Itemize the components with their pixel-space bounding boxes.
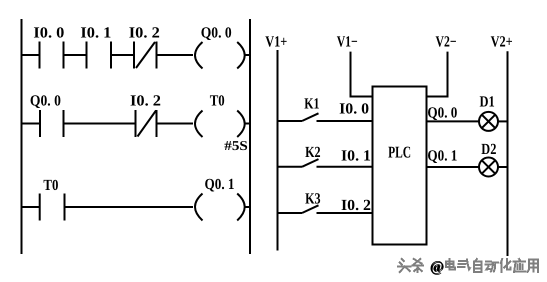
svg-text:I0. 2: I0. 2 bbox=[341, 197, 371, 214]
wire PLC Q0.0 to lamp D1 bbox=[427, 120, 480, 122]
NC contact I0.2 rung1 bbox=[134, 42, 157, 69]
wire lamp D2 to V2+ bbox=[498, 166, 508, 168]
svg-text:Q0. 0: Q0. 0 bbox=[427, 105, 457, 122]
PLC box U1 bbox=[373, 87, 427, 245]
contact Q0.0 bbox=[40, 110, 64, 137]
wire K1 to PLC I0.0 bbox=[317, 120, 373, 122]
V1+ supply line bbox=[277, 50, 279, 251]
watermark char 化 bbox=[501, 259, 511, 272]
svg-text:D2: D2 bbox=[481, 141, 496, 158]
contact T0 bbox=[40, 194, 65, 221]
svg-text:T0: T0 bbox=[43, 177, 58, 194]
wire V1+ to switch K2 bbox=[278, 166, 303, 168]
svg-text:I0. 1: I0. 1 bbox=[341, 148, 371, 165]
watermark 头条@电气自动化应用 bbox=[398, 259, 539, 276]
wire Q0.0 to I0.2 rung2 bbox=[64, 123, 136, 125]
lamp D2 bbox=[479, 158, 498, 177]
V2- supply line bbox=[427, 52, 448, 97]
V1- supply line bbox=[351, 52, 373, 97]
wire T0 to coil Q0.1 bbox=[65, 206, 194, 208]
watermark char 应 bbox=[514, 259, 526, 272]
svg-text:K2: K2 bbox=[305, 144, 321, 161]
svg-text:V2−: V2− bbox=[436, 34, 457, 51]
svg-text:@: @ bbox=[430, 259, 444, 275]
wire V1+ to switch K3 bbox=[278, 212, 303, 214]
NC contact I0.2 rung2 bbox=[136, 110, 157, 137]
watermark char 头 bbox=[398, 259, 411, 272]
wire I0.1 to I0.2 bbox=[111, 54, 134, 56]
svg-text:V1−: V1− bbox=[337, 34, 358, 51]
watermark char 气 bbox=[458, 260, 470, 270]
right power rail bbox=[249, 19, 251, 254]
contact I0.0 bbox=[40, 42, 64, 69]
wire coil Q0.1 to rail bbox=[245, 206, 250, 208]
svg-text:V2+: V2+ bbox=[491, 33, 513, 50]
svg-text:I0. 1: I0. 1 bbox=[80, 25, 111, 42]
lamp D1 bbox=[479, 112, 498, 131]
svg-text:Q0. 1: Q0. 1 bbox=[427, 148, 457, 165]
wire I0.2 to coil Q0.0 bbox=[157, 54, 194, 56]
svg-text:Q0. 0: Q0. 0 bbox=[201, 25, 232, 42]
svg-text:I0. 0: I0. 0 bbox=[33, 25, 64, 42]
svg-text:Q0. 0: Q0. 0 bbox=[30, 93, 61, 110]
contact I0.1 bbox=[87, 42, 112, 69]
svg-text:PLC: PLC bbox=[388, 143, 411, 162]
svg-text:I0. 2: I0. 2 bbox=[129, 25, 160, 42]
watermark char 用 bbox=[528, 260, 539, 273]
svg-text:K1: K1 bbox=[304, 96, 319, 113]
watermark char 动 bbox=[485, 262, 498, 272]
watermark char 电 bbox=[446, 259, 455, 270]
coil Q0.1 bbox=[195, 194, 245, 221]
wire K3 to PLC I0.2 bbox=[317, 212, 373, 214]
wire rung1 rail to I0.0 bbox=[22, 54, 40, 56]
svg-text:#5S: #5S bbox=[224, 138, 248, 153]
svg-text:V1+: V1+ bbox=[265, 33, 287, 50]
watermark char 条 bbox=[413, 259, 424, 272]
switch K3 bbox=[302, 205, 319, 213]
wire lamp D1 to V2+ bbox=[498, 120, 508, 122]
watermark char 自 bbox=[474, 259, 482, 272]
coil T0 bbox=[195, 111, 245, 138]
svg-text:I0. 2: I0. 2 bbox=[130, 93, 161, 110]
svg-text:I0. 0: I0. 0 bbox=[339, 101, 369, 118]
svg-text:Q0. 1: Q0. 1 bbox=[205, 176, 235, 193]
wire rung2 rail to Q0.0 contact bbox=[22, 123, 41, 125]
wire I0.2 to coil T0 bbox=[157, 123, 194, 125]
coil Q0.0 bbox=[195, 42, 245, 69]
wire I0.0 to I0.1 bbox=[64, 54, 87, 56]
left power rail bbox=[21, 19, 23, 254]
switch K2 bbox=[302, 159, 319, 167]
wire coil Q0.0 to rail bbox=[245, 54, 250, 56]
wire K2 to PLC I0.1 bbox=[317, 166, 373, 168]
V2+ supply line bbox=[507, 51, 509, 256]
wire V1+ to switch K1 bbox=[278, 120, 303, 122]
switch K1 bbox=[302, 113, 319, 121]
svg-text:D1: D1 bbox=[480, 94, 495, 111]
wire coil T0 to rail bbox=[245, 123, 250, 125]
svg-text:T0: T0 bbox=[210, 93, 225, 110]
wire PLC Q0.1 to lamp D2 bbox=[427, 166, 480, 168]
svg-text:K3: K3 bbox=[305, 191, 321, 208]
wire rung3 rail to T0 contact bbox=[22, 206, 40, 208]
